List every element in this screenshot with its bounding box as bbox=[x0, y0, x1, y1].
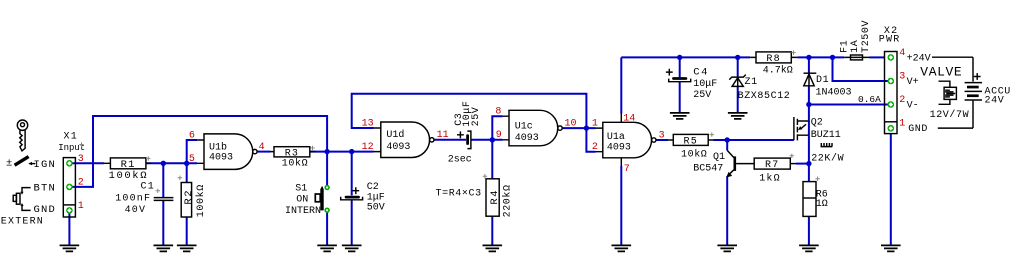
svg-text:GND: GND bbox=[34, 204, 57, 216]
svg-text:7: 7 bbox=[624, 164, 630, 175]
svg-text:100nF: 100nF bbox=[115, 194, 151, 205]
svg-text:+24V: +24V bbox=[907, 53, 931, 64]
svg-text:R4: R4 bbox=[489, 189, 501, 205]
svg-text:3: 3 bbox=[659, 131, 665, 142]
svg-text:14: 14 bbox=[623, 114, 635, 125]
svg-text:0.6A: 0.6A bbox=[858, 94, 881, 105]
svg-text:V+: V+ bbox=[907, 77, 919, 88]
svg-text:VALVE: VALVE bbox=[920, 64, 962, 79]
svg-text:10kΩ: 10kΩ bbox=[681, 148, 707, 160]
svg-text:IGN: IGN bbox=[34, 159, 57, 171]
svg-text:Z1: Z1 bbox=[745, 77, 758, 88]
svg-text:12: 12 bbox=[362, 142, 374, 153]
svg-text:BC547: BC547 bbox=[693, 163, 723, 174]
svg-text:12V/7W: 12V/7W bbox=[930, 109, 970, 121]
svg-text:4093: 4093 bbox=[515, 133, 539, 144]
svg-text:24V: 24V bbox=[985, 95, 1005, 106]
svg-text:EXTERN: EXTERN bbox=[1, 216, 44, 227]
svg-text:25V: 25V bbox=[693, 90, 711, 101]
svg-text:9: 9 bbox=[496, 130, 502, 141]
svg-text:R7: R7 bbox=[765, 160, 779, 171]
svg-text:X1: X1 bbox=[64, 132, 78, 143]
svg-text:1: 1 bbox=[78, 201, 84, 212]
svg-text:3: 3 bbox=[78, 154, 84, 165]
svg-text:13: 13 bbox=[362, 119, 374, 130]
svg-text:4.7kΩ: 4.7kΩ bbox=[763, 64, 793, 76]
svg-text:5: 5 bbox=[189, 154, 195, 165]
svg-text:D1: D1 bbox=[816, 75, 829, 86]
svg-text:6: 6 bbox=[189, 130, 195, 141]
svg-text:2: 2 bbox=[899, 95, 905, 106]
svg-text:1Ω: 1Ω bbox=[816, 199, 828, 210]
svg-text:R8: R8 bbox=[766, 54, 780, 65]
svg-text:C2: C2 bbox=[367, 182, 379, 193]
svg-text:50V: 50V bbox=[367, 202, 385, 213]
svg-text:Q2: Q2 bbox=[811, 118, 823, 129]
svg-text:INTERN: INTERN bbox=[285, 206, 321, 217]
svg-text:U1a: U1a bbox=[607, 132, 625, 143]
svg-text:R2: R2 bbox=[183, 189, 195, 205]
svg-text:100kΩ: 100kΩ bbox=[195, 184, 207, 217]
svg-text:BZX85C12: BZX85C12 bbox=[738, 91, 791, 102]
svg-text:T250V: T250V bbox=[861, 20, 872, 53]
svg-text:C4: C4 bbox=[693, 67, 709, 79]
svg-text:Q1: Q1 bbox=[713, 152, 725, 163]
svg-text:11: 11 bbox=[437, 130, 449, 141]
svg-text:U1d: U1d bbox=[386, 129, 404, 141]
svg-text:1N4003: 1N4003 bbox=[816, 88, 852, 99]
svg-text:PWR: PWR bbox=[879, 34, 901, 45]
svg-text:4093: 4093 bbox=[386, 142, 410, 153]
svg-text:8: 8 bbox=[495, 107, 501, 118]
svg-text:40V: 40V bbox=[125, 205, 147, 216]
svg-text:10kΩ: 10kΩ bbox=[282, 158, 308, 170]
svg-text:10μF: 10μF bbox=[693, 79, 717, 90]
svg-text:4093: 4093 bbox=[607, 143, 631, 154]
svg-text:3: 3 bbox=[899, 72, 905, 83]
svg-text:1: 1 bbox=[899, 119, 905, 130]
svg-text:4: 4 bbox=[259, 142, 265, 153]
svg-text:V-: V- bbox=[907, 101, 919, 112]
svg-text:R5: R5 bbox=[684, 137, 698, 148]
svg-text:BTN: BTN bbox=[34, 183, 57, 195]
svg-text:GND: GND bbox=[908, 124, 928, 135]
svg-text:T=R4×C3: T=R4×C3 bbox=[436, 189, 482, 200]
svg-text:S1: S1 bbox=[295, 184, 307, 195]
svg-text:1A: 1A bbox=[850, 40, 861, 53]
svg-text:U1c: U1c bbox=[515, 121, 533, 132]
svg-text:22K/W: 22K/W bbox=[811, 153, 844, 165]
svg-text:2: 2 bbox=[78, 178, 84, 189]
svg-text:BUZ11: BUZ11 bbox=[811, 130, 841, 141]
svg-text:2: 2 bbox=[592, 142, 598, 153]
svg-text:220kΩ: 220kΩ bbox=[501, 184, 513, 217]
svg-text:10: 10 bbox=[565, 119, 577, 130]
svg-text:4: 4 bbox=[899, 48, 905, 59]
svg-text:±: ± bbox=[6, 157, 14, 169]
svg-text:2sec: 2sec bbox=[448, 155, 472, 166]
svg-text:4093: 4093 bbox=[209, 152, 233, 163]
svg-text:ON: ON bbox=[296, 195, 308, 206]
svg-text:25V: 25V bbox=[471, 107, 482, 127]
svg-text:1: 1 bbox=[592, 119, 598, 130]
svg-text:1kΩ: 1kΩ bbox=[759, 173, 781, 185]
svg-text:C1: C1 bbox=[141, 181, 155, 192]
svg-text:100kΩ: 100kΩ bbox=[109, 170, 149, 182]
